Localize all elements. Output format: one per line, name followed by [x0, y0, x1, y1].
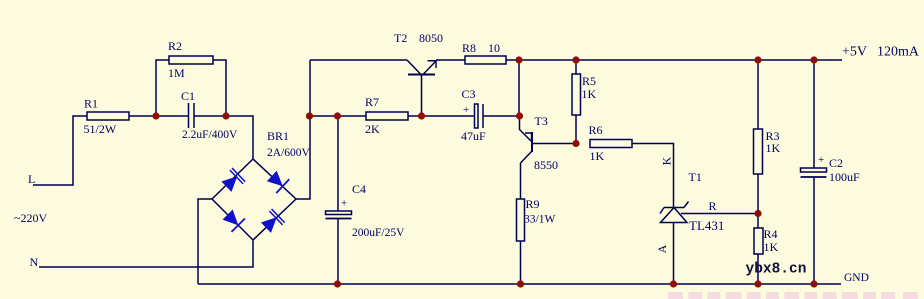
svg-text:2K: 2K — [365, 122, 380, 136]
wire top rail left — [310, 59, 407, 61]
svg-text:47uF: 47uF — [461, 129, 486, 143]
wire main row to R7 — [310, 115, 366, 117]
resistor R8 — [462, 41, 506, 64]
svg-text:8550: 8550 — [534, 158, 558, 172]
svg-text:T1: T1 — [689, 170, 702, 184]
svg-text:L: L — [28, 172, 35, 186]
svg-text:K: K — [660, 156, 674, 165]
capacitor C3 — [461, 87, 519, 143]
svg-text:33/1W: 33/1W — [524, 214, 555, 226]
wire R7 to C3 — [408, 115, 474, 117]
node +5V output — [842, 45, 920, 60]
svg-text:R1: R1 — [84, 97, 98, 111]
svg-text:2A/600V: 2A/600V — [267, 147, 311, 159]
resistor R1 — [84, 97, 130, 137]
shunt reference T1 TL431 — [660, 170, 724, 284]
wire N lead — [39, 240, 253, 267]
wire R6 to K — [632, 144, 674, 208]
svg-text:T2: T2 — [394, 31, 407, 45]
wire TL431 R lead — [681, 213, 758, 215]
svg-text:A: A — [655, 244, 669, 253]
node N — [30, 255, 39, 269]
svg-text:+5V: +5V — [842, 45, 867, 60]
svg-text:+: + — [341, 198, 347, 210]
junction at R1/C1/R2 left — [152, 112, 159, 119]
wire ground rail — [198, 283, 841, 285]
svg-text:N: N — [30, 255, 39, 269]
wire R1 to C1 — [129, 115, 188, 117]
junction at R8 right top rail — [515, 56, 522, 63]
junction at R4 bottom — [754, 280, 761, 287]
transistor T2 — [394, 31, 443, 116]
junction at TL431 anode bottom — [670, 280, 677, 287]
svg-text:R: R — [709, 199, 717, 213]
svg-text:C3: C3 — [462, 87, 476, 101]
svg-text:BR1: BR1 — [267, 129, 289, 143]
svg-text:2.2uF/400V: 2.2uF/400V — [182, 129, 238, 141]
svg-text:51/2W: 51/2W — [84, 122, 117, 136]
svg-text:R2: R2 — [168, 39, 182, 53]
svg-text:1K: 1K — [590, 149, 605, 163]
svg-text:100uF: 100uF — [829, 170, 860, 184]
svg-text:1K: 1K — [582, 87, 597, 101]
svg-text:200uF/25V: 200uF/25V — [352, 227, 405, 239]
node GND — [844, 272, 869, 284]
svg-text:R4: R4 — [764, 227, 778, 241]
wire L lead — [33, 116, 87, 185]
junction at C1/R2 right — [222, 112, 229, 119]
bridge BR1 diamond — [212, 129, 311, 240]
junction at R7/T2 base — [418, 112, 425, 119]
svg-text:1K: 1K — [766, 141, 781, 155]
svg-text:8050: 8050 — [419, 31, 443, 45]
junction at C4 top — [334, 112, 341, 119]
svg-text:C2: C2 — [829, 156, 843, 170]
resistor R9 — [517, 197, 556, 284]
svg-text:+: + — [818, 154, 824, 166]
diode D1 bridge top-left — [220, 168, 245, 193]
resistor R3 — [754, 60, 781, 214]
resistor R7 — [365, 95, 408, 136]
diode D4 bridge bottom-right — [260, 209, 285, 234]
faint caption — [668, 292, 918, 299]
transistor T3 — [520, 114, 577, 199]
diode D3 bridge bottom-left — [221, 208, 245, 232]
diode D2 bridge top-right — [266, 169, 290, 193]
wire C1 to bridge — [194, 116, 253, 159]
svg-text:R9: R9 — [526, 197, 540, 211]
svg-text:TL431: TL431 — [689, 218, 724, 233]
node R — [709, 199, 717, 213]
svg-text:GND: GND — [844, 272, 869, 284]
junction at R9 bottom — [517, 280, 524, 287]
svg-text:~220V: ~220V — [14, 211, 47, 225]
svg-text:1M: 1M — [168, 66, 185, 80]
wire bridge right vertex up to top rail — [296, 60, 310, 199]
resistor R4 — [754, 214, 779, 285]
junction at C3/T3 emitter — [516, 112, 523, 119]
capacitor C2 — [801, 60, 861, 284]
capacitor C1 — [181, 89, 238, 141]
wire R8 junction down — [518, 60, 520, 116]
node K — [660, 156, 674, 165]
junction at R5 top — [572, 56, 579, 63]
resistor R2 — [156, 39, 226, 116]
wire T2 emitter to R8 — [436, 59, 465, 61]
svg-text:C1: C1 — [181, 89, 195, 103]
svg-text:R6: R6 — [589, 123, 603, 137]
junction at C4 bottom — [334, 280, 341, 287]
svg-text:R5: R5 — [582, 74, 596, 88]
svg-text:ybx8.cn: ybx8.cn — [746, 262, 807, 278]
svg-text:R7: R7 — [365, 95, 379, 109]
wire top rail right — [506, 59, 842, 61]
svg-text:120mA: 120mA — [877, 45, 920, 60]
junction at R node — [754, 210, 761, 217]
wire bridge left vertex to ground rail — [198, 199, 212, 284]
resistor R6 — [589, 123, 633, 163]
junction at T3 base/R5/R6 — [572, 140, 579, 147]
junction at C2 top — [810, 56, 817, 63]
node L — [28, 172, 35, 186]
junction at C2 bottom — [810, 280, 817, 287]
svg-text:C4: C4 — [352, 182, 366, 196]
svg-text:R8: R8 — [462, 41, 476, 55]
capacitor C4 — [326, 116, 406, 284]
junction at bridge output row — [306, 112, 313, 119]
resistor R5 — [572, 60, 597, 144]
svg-text:+: + — [463, 104, 469, 116]
svg-text:1K: 1K — [764, 240, 779, 254]
node A — [655, 244, 669, 253]
svg-text:10: 10 — [488, 41, 500, 55]
node ~220V — [14, 211, 47, 225]
svg-text:T3: T3 — [535, 114, 548, 128]
junction at R3 top — [754, 56, 761, 63]
